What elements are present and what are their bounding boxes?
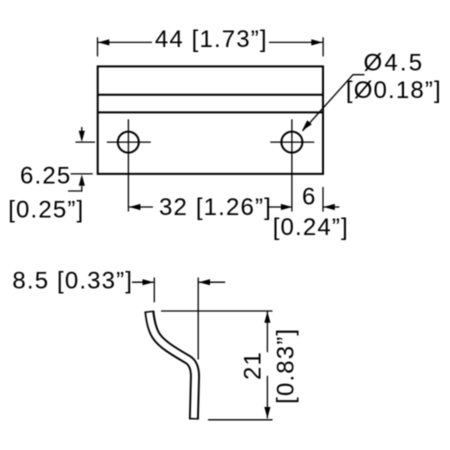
svg-text:21: 21 [239, 351, 266, 380]
plate fold line 2 [98, 111, 323, 113]
hole right [281, 132, 302, 153]
dimension 44 arrow right [311, 39, 322, 45]
dimension 21 line upper segment [266, 312, 268, 353]
dimension 8.5 right arrow segment [199, 281, 226, 283]
svg-text:Ø4.5: Ø4.5 [364, 49, 425, 76]
hole left vertical centerline [127, 119, 129, 211]
dimension 32 arrow left [129, 204, 140, 210]
side view sheet profile [149, 311, 195, 420]
dimension 6 extension line [322, 187, 324, 212]
svg-text:[0.25”]: [0.25”] [8, 197, 84, 224]
dimension 44 extension line left [97, 37, 99, 56]
svg-text:6.25: 6.25 [20, 163, 71, 190]
dimension 6 arrow [324, 204, 335, 210]
dimension 8.5 arrow right [199, 279, 210, 285]
dimension 44 line right segment [269, 41, 323, 43]
dimension 8.5 arrow left [143, 279, 154, 285]
dimension 44 line left segment [98, 41, 152, 43]
dimension 44 arrow left [98, 39, 109, 45]
svg-text:[0.83”]: [0.83”] [273, 328, 300, 404]
dimension 32 / 6 shared line segment [268, 206, 292, 208]
dimension 8.5 extension line right [197, 278, 199, 360]
dimension 8.5 left arrow segment [132, 281, 154, 283]
dimension 32 line left segment [129, 206, 153, 208]
svg-text:32 [1.26”]: 32 [1.26”] [159, 194, 272, 221]
hole right horizontal centerline [270, 141, 314, 143]
svg-text:44 [1.73”]: 44 [1.73”] [155, 26, 268, 53]
hole left horizontal centerline [107, 141, 151, 143]
svg-text:6: 6 [302, 184, 317, 211]
dimension 8.5 extension line left [153, 278, 155, 303]
dimension 6.25 arrow up with jog [68, 186, 82, 191]
dimension 6.25 tick upper [75, 141, 95, 143]
dimension 21 arrow down [264, 407, 270, 418]
dimension 21 line lower segment [266, 376, 268, 419]
top view plate outline [98, 66, 323, 173]
dimension 21 extension line top [161, 310, 273, 312]
dimension 21 extension line bottom [208, 419, 273, 421]
dimension 21 arrow up [264, 312, 270, 323]
dimension 32 arrow right [281, 204, 292, 210]
dimension 6.25 arrow down [81, 127, 83, 133]
dimension 6.25 tick lower [71, 173, 93, 175]
dimension 44 extension line right [322, 37, 324, 56]
svg-text:[0.24”]: [0.24”] [273, 214, 349, 241]
hole right vertical centerline [291, 119, 293, 211]
leader arrow [302, 120, 312, 131]
leader line diameter [303, 75, 365, 131]
plate fold line 1 [98, 94, 323, 96]
svg-text:[Ø0.18”]: [Ø0.18”] [346, 77, 442, 104]
svg-text:8.5 [0.33”]: 8.5 [0.33”] [12, 268, 133, 295]
dimension 6 right arrow segment [324, 206, 340, 208]
hole left [118, 132, 139, 153]
